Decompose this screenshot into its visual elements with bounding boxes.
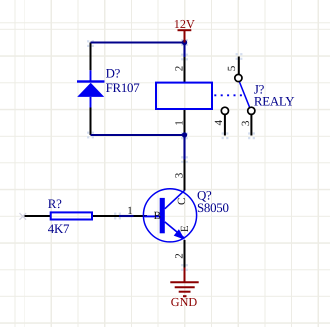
- svg-text:S8050: S8050: [197, 201, 229, 215]
- svg-text:1: 1: [174, 120, 186, 126]
- svg-text:REALY: REALY: [254, 95, 294, 109]
- svg-text:E: E: [179, 225, 191, 232]
- svg-text:B: B: [154, 210, 161, 222]
- svg-text:2: 2: [174, 66, 186, 72]
- svg-text:3: 3: [240, 120, 252, 126]
- svg-text:Q?: Q?: [197, 188, 212, 202]
- svg-text:1: 1: [127, 205, 133, 217]
- svg-text:12V: 12V: [174, 17, 195, 31]
- svg-text:FR107: FR107: [106, 81, 141, 95]
- svg-text:R?: R?: [48, 197, 62, 211]
- svg-text:4K7: 4K7: [48, 222, 70, 236]
- svg-text:GND: GND: [171, 295, 198, 309]
- svg-text:3: 3: [174, 172, 186, 178]
- svg-text:2: 2: [174, 253, 186, 259]
- svg-text:5: 5: [226, 65, 238, 71]
- svg-text:4: 4: [213, 119, 225, 125]
- svg-text:C: C: [176, 198, 188, 205]
- svg-text:D?: D?: [106, 67, 121, 81]
